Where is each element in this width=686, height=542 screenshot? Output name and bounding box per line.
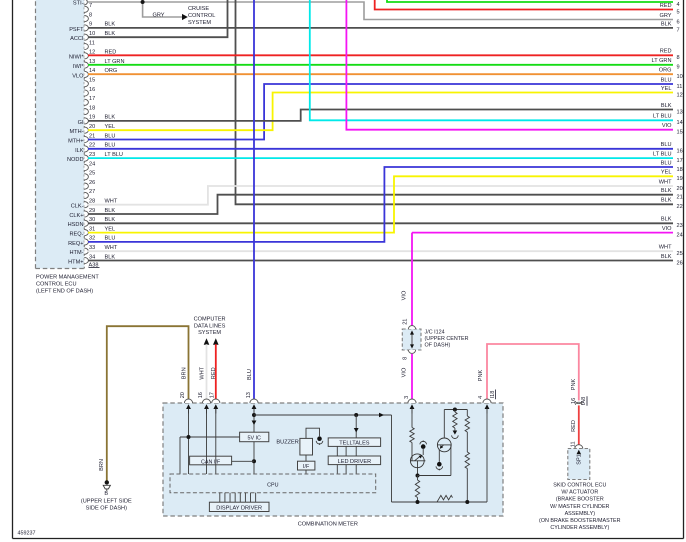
svg-text:15: 15 — [677, 130, 683, 136]
svg-text:20: 20 — [180, 392, 186, 398]
svg-text:POWER MANAGEMENT: POWER MANAGEMENT — [36, 275, 99, 281]
svg-text:CPU: CPU — [267, 482, 278, 488]
svg-text:HSDN: HSDN — [68, 222, 84, 228]
svg-text:CONTROL ECU: CONTROL ECU — [36, 282, 77, 288]
svg-text:14: 14 — [677, 120, 683, 126]
svg-text:W/ MASTER CYLINDER: W/ MASTER CYLINDER — [550, 504, 609, 510]
svg-text:CONTROL: CONTROL — [188, 13, 215, 19]
svg-text:SP1: SP1 — [577, 454, 583, 465]
svg-text:LED DRIVER: LED DRIVER — [338, 459, 372, 465]
svg-text:17: 17 — [89, 96, 95, 102]
svg-text:BLU: BLU — [661, 160, 672, 166]
svg-text:CLK-: CLK- — [71, 204, 84, 210]
svg-text:32: 32 — [89, 236, 95, 242]
svg-text:IA8: IA8 — [581, 397, 587, 405]
svg-text:24: 24 — [677, 232, 683, 238]
svg-text:COMPUTER: COMPUTER — [194, 317, 226, 323]
svg-text:24: 24 — [89, 161, 95, 167]
svg-text:23: 23 — [89, 152, 95, 158]
svg-text:NODD: NODD — [67, 157, 83, 163]
svg-text:ORG: ORG — [659, 68, 672, 74]
svg-text:29: 29 — [89, 208, 95, 214]
svg-text:ASSEMBLY): ASSEMBLY) — [565, 511, 596, 517]
svg-text:BLK: BLK — [661, 217, 672, 223]
svg-text:26: 26 — [89, 180, 95, 186]
svg-text:DISPLAY DRIVER: DISPLAY DRIVER — [216, 506, 262, 512]
svg-text:HTM+: HTM+ — [68, 259, 83, 265]
svg-text:11: 11 — [89, 40, 95, 46]
svg-text:MTH-: MTH- — [70, 129, 84, 135]
svg-text:16: 16 — [198, 392, 204, 398]
svg-text:BLU: BLU — [661, 77, 672, 83]
svg-text:BLU: BLU — [105, 133, 116, 139]
svg-text:7: 7 — [89, 3, 92, 9]
svg-text:25: 25 — [677, 251, 683, 257]
svg-text:WHT: WHT — [659, 179, 672, 185]
svg-text:28: 28 — [89, 199, 95, 205]
svg-text:BLK: BLK — [105, 22, 116, 28]
svg-text:5V IC: 5V IC — [247, 435, 261, 441]
svg-text:CYLINDER ASSEMBLY): CYLINDER ASSEMBLY) — [550, 525, 609, 531]
svg-text:25: 25 — [89, 171, 95, 177]
svg-text:11: 11 — [677, 84, 683, 90]
svg-text:31: 31 — [89, 226, 95, 232]
svg-text:NIWI*: NIWI* — [69, 55, 84, 61]
svg-text:21: 21 — [89, 133, 95, 139]
svg-text:YEL: YEL — [105, 124, 116, 130]
svg-text:21: 21 — [402, 319, 408, 325]
svg-text:VLO: VLO — [72, 73, 84, 79]
svg-text:LT BLU: LT BLU — [105, 152, 123, 158]
svg-text:CRUISE: CRUISE — [188, 6, 209, 12]
svg-text:BLU: BLU — [661, 142, 672, 148]
svg-text:BLK: BLK — [661, 254, 672, 260]
svg-text:BLK: BLK — [105, 208, 116, 214]
svg-text:20: 20 — [677, 186, 683, 192]
svg-text:21: 21 — [677, 195, 683, 201]
svg-text:30: 30 — [89, 217, 95, 223]
svg-text:RED: RED — [571, 420, 577, 432]
svg-text:SKID CONTROL ECU: SKID CONTROL ECU — [553, 483, 606, 489]
svg-text:5: 5 — [677, 9, 680, 15]
svg-text:VIO: VIO — [662, 226, 672, 232]
svg-text:7: 7 — [677, 28, 680, 34]
svg-text:W/ ACTUATOR: W/ ACTUATOR — [561, 490, 598, 496]
svg-text:IWI*: IWI* — [73, 64, 84, 70]
svg-text:CLK+: CLK+ — [69, 213, 83, 219]
svg-text:6: 6 — [677, 19, 680, 25]
svg-text:4: 4 — [478, 396, 484, 399]
svg-text:20: 20 — [89, 124, 95, 130]
svg-text:SYSTEM: SYSTEM — [198, 330, 221, 336]
svg-text:B: B — [104, 491, 108, 497]
svg-text:BLK: BLK — [105, 115, 116, 121]
svg-text:PNK: PNK — [478, 369, 484, 381]
svg-text:LT BLU: LT BLU — [653, 114, 671, 120]
svg-text:(ON BRAKE BOOSTER/MASTER: (ON BRAKE BOOSTER/MASTER — [539, 518, 621, 524]
svg-text:18: 18 — [89, 105, 95, 111]
svg-text:RED: RED — [211, 367, 217, 379]
svg-text:ILK: ILK — [75, 148, 84, 154]
svg-text:16: 16 — [677, 149, 683, 155]
svg-text:16: 16 — [89, 87, 95, 93]
svg-text:GRY: GRY — [659, 13, 671, 19]
svg-text:WHT: WHT — [659, 245, 672, 251]
svg-text:VIO: VIO — [401, 367, 407, 377]
svg-text:BLK: BLK — [105, 217, 116, 223]
svg-text:19: 19 — [677, 176, 683, 182]
svg-text:RED: RED — [660, 49, 672, 55]
svg-text:BLK: BLK — [105, 31, 116, 37]
svg-text:27: 27 — [89, 189, 95, 195]
svg-text:9: 9 — [677, 65, 680, 71]
svg-text:TELLTALES: TELLTALES — [339, 441, 370, 447]
svg-text:BLU: BLU — [105, 143, 116, 149]
svg-text:WHT: WHT — [105, 245, 118, 251]
svg-text:(LEFT END OF DASH): (LEFT END OF DASH) — [36, 289, 93, 295]
svg-text:J/C I124: J/C I124 — [425, 329, 445, 335]
svg-text:BLK: BLK — [661, 188, 672, 194]
svg-text:YEL: YEL — [661, 170, 672, 176]
svg-text:WHT: WHT — [200, 366, 206, 379]
svg-text:8: 8 — [403, 357, 409, 360]
svg-text:LT GRN: LT GRN — [652, 58, 672, 64]
svg-text:19: 19 — [89, 115, 95, 121]
svg-text:I/F: I/F — [303, 464, 310, 470]
svg-text:COMBINATION METER: COMBINATION METER — [298, 521, 358, 527]
svg-text:16: 16 — [571, 398, 577, 404]
svg-text:22: 22 — [677, 204, 683, 210]
svg-text:12: 12 — [677, 92, 683, 98]
svg-text:OF DASH): OF DASH) — [425, 342, 451, 348]
svg-text:I18: I18 — [490, 391, 496, 399]
svg-text:YEL: YEL — [661, 86, 672, 92]
svg-text:BLK: BLK — [661, 198, 672, 204]
svg-text:(UPPER LEFT SIDE: (UPPER LEFT SIDE — [81, 499, 132, 505]
svg-text:BUZZER: BUZZER — [276, 440, 298, 446]
svg-text:8: 8 — [677, 55, 680, 61]
svg-text:RED: RED — [660, 3, 672, 9]
svg-text:VIO: VIO — [662, 123, 672, 129]
svg-text:26: 26 — [677, 260, 683, 266]
svg-text:9: 9 — [89, 22, 92, 28]
svg-text:SYSTEM: SYSTEM — [188, 20, 211, 26]
svg-text:WHT: WHT — [105, 199, 118, 205]
svg-text:BLK: BLK — [661, 103, 672, 109]
svg-text:4: 4 — [677, 2, 680, 8]
svg-text:BLK: BLK — [661, 21, 672, 27]
svg-text:(BRAKE BOOSTER: (BRAKE BOOSTER — [556, 497, 604, 503]
svg-text:HTM-: HTM- — [70, 250, 84, 256]
svg-text:17: 17 — [677, 158, 683, 164]
svg-text:MTH+: MTH+ — [68, 138, 83, 144]
svg-text:PSFT: PSFT — [69, 27, 84, 33]
svg-text:BRN: BRN — [181, 367, 187, 379]
svg-text:ACCI: ACCI — [70, 36, 84, 42]
svg-text:8: 8 — [89, 12, 92, 18]
svg-text:BRN: BRN — [99, 459, 105, 471]
svg-text:PNK: PNK — [571, 378, 577, 390]
svg-text:SIDE OF DASH): SIDE OF DASH) — [86, 506, 127, 512]
svg-text:13: 13 — [677, 109, 683, 115]
svg-text:23: 23 — [677, 223, 683, 229]
svg-text:REQ+: REQ+ — [68, 241, 83, 247]
svg-text:15: 15 — [89, 78, 95, 84]
svg-text:(UPPER CENTER: (UPPER CENTER — [425, 336, 469, 342]
svg-text:BLK: BLK — [105, 254, 116, 260]
svg-text:BLU: BLU — [105, 236, 116, 242]
svg-text:3: 3 — [404, 396, 410, 399]
svg-text:YEL: YEL — [105, 226, 116, 232]
svg-text:LT BLU: LT BLU — [653, 152, 671, 158]
svg-text:18: 18 — [677, 167, 683, 173]
svg-text:GRY: GRY — [153, 12, 165, 18]
svg-text:33: 33 — [89, 245, 95, 251]
svg-text:REQ-: REQ- — [70, 232, 84, 238]
svg-text:459237: 459237 — [18, 531, 36, 537]
svg-text:DATA LINES: DATA LINES — [194, 323, 226, 329]
svg-text:VIO: VIO — [401, 290, 407, 300]
svg-text:STI-: STI- — [73, 1, 84, 7]
svg-text:10: 10 — [89, 31, 95, 37]
svg-text:13: 13 — [246, 392, 252, 398]
svg-text:34: 34 — [89, 254, 95, 260]
svg-text:CAN I/F: CAN I/F — [201, 459, 221, 465]
svg-text:GI: GI — [78, 120, 84, 126]
svg-text:22: 22 — [89, 143, 95, 149]
svg-text:10: 10 — [677, 74, 683, 80]
svg-text:BLU: BLU — [247, 369, 253, 380]
svg-text:17: 17 — [209, 392, 215, 398]
